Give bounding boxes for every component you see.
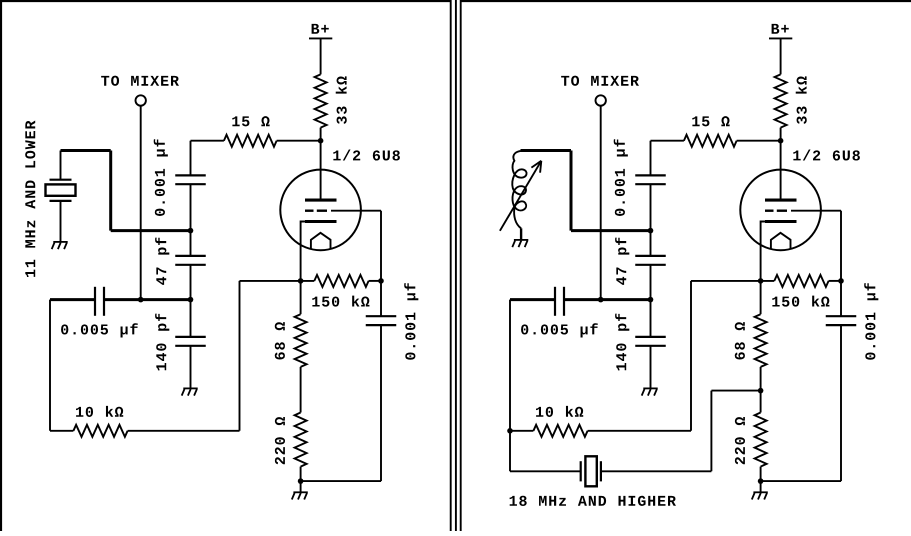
label 68 Ohm (B) xyxy=(735,322,745,359)
wire ground stub (A) xyxy=(300,481,302,492)
tube plate bar (A) xyxy=(305,199,337,202)
panel separator line 3 xyxy=(460,0,462,531)
label TO MIXER (B) xyxy=(561,76,639,86)
tube cathode bar (A) xyxy=(305,220,337,223)
frame top border right segment xyxy=(461,0,911,2)
node cathode junction (A) xyxy=(298,278,304,284)
label 47 pf (B) xyxy=(615,238,629,285)
wire left to C 0.005 (B) xyxy=(510,298,555,301)
node mixer tap on 0.005 row (B) xyxy=(598,297,604,303)
terminal TO MIXER (B) xyxy=(596,95,606,105)
label 33 kOhm (A) xyxy=(336,76,347,124)
wire to cathode divider tap (B) xyxy=(711,390,760,392)
capacitor C5A 0.001 &#181;f (grid) xyxy=(366,316,397,325)
wire to crystal Y2 (B) xyxy=(510,470,581,472)
wire R 15 to plate node (A) xyxy=(277,140,321,142)
wire R 10k to riser (B) xyxy=(588,430,691,432)
wire R 150k to grid branch (A) xyxy=(369,280,381,282)
ground below R 220 (A) xyxy=(292,492,308,499)
wire C 0.001 down (B) xyxy=(840,325,842,481)
capacitor C1B 0.001 &#181;f (screen bypass) xyxy=(635,175,666,184)
ground below C 140pf (A) xyxy=(182,388,198,395)
frame left border xyxy=(0,0,2,531)
wire riser to screen node (B) xyxy=(571,229,651,232)
wire B+ to R 33k (B) xyxy=(780,38,782,74)
label 18 MHz AND HIGHER xyxy=(510,496,676,506)
node grid branch junction (B) xyxy=(838,278,844,284)
label 11 MHz AND LOWER xyxy=(25,121,35,277)
wire to C 140pf (A) xyxy=(190,300,192,337)
label 220 Ohm (B) xyxy=(735,417,745,464)
capacitor C1A 0.001 &#181;f (screen bypass) xyxy=(175,175,206,184)
wire to R 10k (A) xyxy=(50,430,73,432)
label 150 kOhm (A) xyxy=(312,296,369,307)
B+ terminal bar (B) xyxy=(769,37,792,39)
node cathode junction (B) xyxy=(758,278,764,284)
node cathode ground (B) xyxy=(758,478,764,484)
label 10 kOhm (B) xyxy=(536,406,583,417)
wire cap column to R 15 (A) xyxy=(191,140,224,142)
capacitor C3A 140 pf (feedback) xyxy=(175,337,206,346)
wire R 33k to plate node (B) xyxy=(780,128,782,141)
wire riser to grid row (A) xyxy=(239,281,241,431)
resistor R5A 220 &#937; (cathode) xyxy=(295,413,307,467)
label 0.001 uf right (B) xyxy=(864,283,878,360)
resistor R4A 68 &#937; (cathode) xyxy=(295,314,307,367)
wire R 68 to R 220 (B) xyxy=(760,367,762,413)
node plate junction (B) xyxy=(778,138,784,144)
frame top border left segment xyxy=(0,0,451,2)
wire to R 68 (B) xyxy=(760,281,762,314)
wire crystal Y2 to riser (B) xyxy=(601,470,712,472)
wire cathode lead (B) xyxy=(761,222,766,281)
resistor R2B 15 &#937; (parasitic stopper) xyxy=(684,135,737,147)
node grid leak / crystal junction (B) xyxy=(507,428,513,434)
wire crystal bottom lead (A) xyxy=(60,201,62,242)
capacitor C4A 0.005 &#181;f (output coupling) xyxy=(95,287,104,316)
label 0.005 uf (A) xyxy=(61,323,138,337)
crystal Y2 18 MHz AND HIGHER xyxy=(581,456,601,486)
panel separator line 1 xyxy=(450,0,452,531)
capacitor C2A 47 pf (feedback) xyxy=(175,256,206,265)
resistor R3A 150 k&#937; (grid) xyxy=(314,275,368,287)
node grid branch junction (A) xyxy=(378,278,384,284)
wire coil to riser (B) xyxy=(521,149,572,152)
wire cap column to R 15 (B) xyxy=(651,140,684,142)
resistor R6A 10 k&#937; (grid leak) xyxy=(73,425,127,437)
resistor R4B 68 &#937; (cathode) xyxy=(755,314,767,367)
wire R 33k to plate node (A) xyxy=(320,128,322,141)
wire TO MIXER down (A) xyxy=(140,106,142,300)
crystal Y1 11 MHz AND LOWER xyxy=(46,180,76,201)
wire bottom to cathode ground (B) xyxy=(761,480,841,482)
inductor tuning arrow xyxy=(500,161,541,231)
wire grid row left (A) xyxy=(240,280,315,282)
wire C 47pf to cathode tap (A) xyxy=(190,265,192,300)
wire C 0.005 to tap node (B) xyxy=(564,298,651,301)
wire bottom to cathode ground (A) xyxy=(301,480,381,482)
wire crystal to riser (A) xyxy=(61,149,111,152)
label 0.001 uf (B) xyxy=(614,139,628,216)
ground below R 220 (B) xyxy=(752,492,768,499)
wire R 150k to grid branch (B) xyxy=(829,280,841,282)
node feedback tap (B) xyxy=(648,297,654,303)
label 1/2 6U8 (B) xyxy=(793,150,860,161)
label 140 pf (B) xyxy=(615,314,629,371)
wire down to C 0.001 (A) xyxy=(190,141,192,176)
wire C 0.005 to tap node (A) xyxy=(104,298,191,301)
triode V1A 1/2 6U8 envelope xyxy=(280,170,361,251)
wire coil to ground (B) xyxy=(520,228,522,240)
resistor R2A 15 &#937; (parasitic stopper) xyxy=(224,135,277,147)
label 150 kOhm (B) xyxy=(772,296,829,307)
node mixer tap on 0.005 row (A) xyxy=(138,297,144,303)
panel separator line 2 xyxy=(455,0,457,531)
wire plate lead (A) xyxy=(320,141,322,199)
wire plate lead (B) xyxy=(780,141,782,199)
ground below C 140pf (B) xyxy=(642,388,658,395)
triode V1B 1/2 6U8 envelope xyxy=(740,170,821,251)
capacitor C5B 0.001 &#181;f (grid) xyxy=(826,316,857,325)
tube heater filament (A) xyxy=(311,233,331,249)
capacitor C4B 0.005 &#181;f (output coupling) xyxy=(555,287,564,316)
tube control grid (dashed) (A) xyxy=(305,209,327,211)
wire to C 47pf (A) xyxy=(190,231,192,256)
label 0.001 uf (A) xyxy=(154,139,168,216)
wire R 10k to riser (A) xyxy=(128,430,240,432)
wire cathode lead (A) xyxy=(301,222,306,281)
wire C 140pf to ground (B) xyxy=(650,346,652,389)
capacitor C2B 47 pf (feedback) xyxy=(635,256,666,265)
wire to R 10k (B) xyxy=(510,430,533,432)
tube cathode bar (B) xyxy=(765,220,797,223)
label 140 pf (A) xyxy=(155,314,169,371)
label 33 kOhm (B) xyxy=(796,76,807,124)
label 15 Ohm (A) xyxy=(232,116,269,126)
wire riser to screen node (A) xyxy=(111,229,191,232)
wire to C 47pf (B) xyxy=(650,231,652,256)
wire down to C 0.001 (B) xyxy=(650,141,652,176)
wire R 220 to ground node (B) xyxy=(760,467,762,482)
label TO MIXER (A) xyxy=(101,76,179,86)
resistor R1A 33 k&#937; (plate load) xyxy=(315,74,327,127)
wire C 47pf to cathode tap (B) xyxy=(650,265,652,300)
node B+ label (B) xyxy=(772,24,789,34)
node cathode ground (A) xyxy=(298,478,304,484)
wire R 15 to plate node (B) xyxy=(737,140,781,142)
label 1/2 6U8 (A) xyxy=(333,150,400,161)
resistor R6B 10 k&#937; (grid leak) xyxy=(533,425,587,437)
node B+ label (A) xyxy=(312,24,329,34)
inductor L1 (slug-tuned coil) xyxy=(512,151,526,228)
label 10 kOhm (A) xyxy=(76,406,123,417)
ground below crystal Y1 xyxy=(52,242,68,249)
wire riser up (B) xyxy=(710,391,712,472)
wire B+ to R 33k (A) xyxy=(320,38,322,74)
wire R 220 to ground node (A) xyxy=(300,467,302,482)
terminal TO MIXER (A) xyxy=(136,95,146,105)
wire ground stub (B) xyxy=(760,481,762,492)
wire right branch down to C 0.001 (B) xyxy=(840,211,842,317)
wire TO MIXER down (B) xyxy=(600,106,602,300)
wire grid to right branch (B) xyxy=(791,210,841,212)
label 0.005 uf (B) xyxy=(521,323,598,337)
wire riser down (A) xyxy=(109,151,112,231)
wire R 68 to R 220 (A) xyxy=(300,367,302,413)
tube heater filament (B) xyxy=(771,233,791,249)
node screen grid junction (A) xyxy=(188,228,194,234)
label 15 Ohm (B) xyxy=(692,116,729,126)
resistor R1B 33 k&#937; (plate load) xyxy=(775,74,787,127)
label 47 pf (A) xyxy=(155,238,169,285)
label 220 Ohm (A) xyxy=(275,417,285,464)
label 0.001 uf right (A) xyxy=(404,283,418,360)
wire C 140pf to ground (A) xyxy=(190,346,192,389)
resistor R5B 220 &#937; (cathode) xyxy=(755,413,767,467)
wire riser down (B) xyxy=(570,151,573,231)
wire C1 to screen node (A) xyxy=(190,184,192,230)
wire crystal top lead (A) xyxy=(60,151,62,180)
wire riser to grid row (B) xyxy=(690,281,692,431)
node plate junction (A) xyxy=(318,138,324,144)
ground below coil L1 xyxy=(512,240,528,247)
node screen grid junction (B) xyxy=(648,228,654,234)
node crystal return junction (B) xyxy=(758,388,764,394)
node feedback tap (A) xyxy=(188,297,194,303)
label 68 Ohm (A) xyxy=(275,322,285,359)
tube control grid (dashed) (B) xyxy=(765,209,787,211)
B+ terminal bar (A) xyxy=(309,37,332,39)
wire left branch down (B) xyxy=(509,300,511,472)
wire C 0.001 down (A) xyxy=(380,325,382,481)
wire right branch down to C 0.001 (A) xyxy=(380,211,382,317)
wire to C 140pf (B) xyxy=(650,300,652,337)
wire grid row left (B) xyxy=(691,280,774,282)
wire grid to right branch (A) xyxy=(331,210,381,212)
wire left to C 0.005 (A) xyxy=(50,298,95,301)
wire C1 to screen node (B) xyxy=(650,184,652,230)
tube plate bar (B) xyxy=(765,199,797,202)
resistor R3B 150 k&#937; (grid) xyxy=(774,275,828,287)
capacitor C3B 140 pf (feedback) xyxy=(635,337,666,346)
wire left branch down (A) xyxy=(49,300,51,431)
wire to R 68 (A) xyxy=(300,281,302,314)
